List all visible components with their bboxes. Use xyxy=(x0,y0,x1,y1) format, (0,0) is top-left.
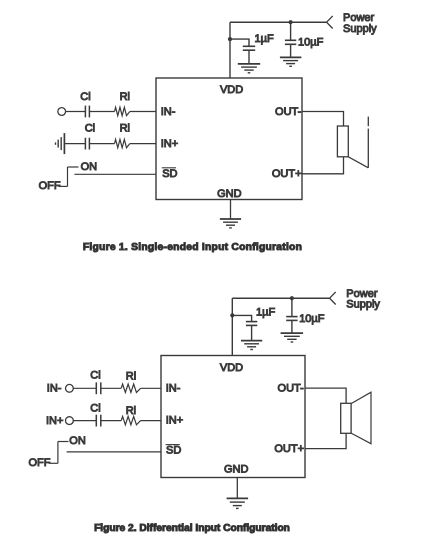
svg-text:Figure 2. Differential Input: Figure 2. Differential Input Configurati… xyxy=(94,523,290,534)
svg-text:IN+: IN+ xyxy=(166,415,183,427)
svg-text:Ci: Ci xyxy=(80,91,90,103)
svg-text:1µF: 1µF xyxy=(256,306,275,318)
svg-text:Supply: Supply xyxy=(346,299,380,311)
svg-text:Ri: Ri xyxy=(120,123,130,135)
svg-text:Ri: Ri xyxy=(120,91,130,103)
svg-text:OFF: OFF xyxy=(29,457,51,469)
svg-text:SD: SD xyxy=(166,445,181,457)
svg-text:OUT+: OUT+ xyxy=(272,168,302,180)
svg-text:IN-: IN- xyxy=(47,382,62,394)
svg-text:Supply: Supply xyxy=(343,23,377,35)
svg-text:OUT-: OUT- xyxy=(278,383,305,395)
svg-text:GND: GND xyxy=(217,188,242,200)
svg-text:ON: ON xyxy=(69,435,86,447)
svg-text:IN+: IN+ xyxy=(46,415,63,427)
svg-text:OUT-: OUT- xyxy=(275,106,302,118)
svg-text:10µF: 10µF xyxy=(298,37,324,49)
svg-text:SD: SD xyxy=(162,168,177,180)
svg-text:Ri: Ri xyxy=(126,370,136,382)
svg-text:10µF: 10µF xyxy=(299,313,325,325)
svg-text:VDD: VDD xyxy=(220,84,243,96)
svg-text:Ci: Ci xyxy=(85,123,95,135)
svg-text:Ri: Ri xyxy=(126,405,136,417)
svg-text:VDD: VDD xyxy=(220,362,243,374)
svg-text:IN-: IN- xyxy=(161,106,176,118)
svg-text:OUT+: OUT+ xyxy=(274,443,304,455)
svg-text:1µF: 1µF xyxy=(255,33,274,45)
svg-text:Figure 1. Single-ended Input: Figure 1. Single-ended Input Configurati… xyxy=(83,242,302,253)
svg-text:Ci: Ci xyxy=(90,369,100,381)
svg-text:ON: ON xyxy=(81,161,98,173)
svg-text:GND: GND xyxy=(224,464,249,476)
svg-text:IN-: IN- xyxy=(166,383,181,395)
svg-text:Ci: Ci xyxy=(90,403,100,415)
svg-text:IN+: IN+ xyxy=(161,138,178,150)
svg-text:OFF: OFF xyxy=(39,180,61,192)
